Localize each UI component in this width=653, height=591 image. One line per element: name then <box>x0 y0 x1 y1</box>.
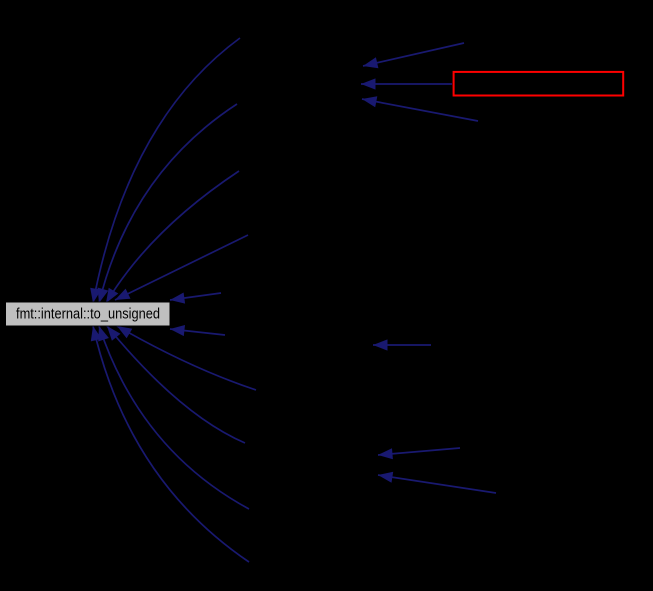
edge E3 caller3 -> to_unsigned <box>106 171 239 303</box>
node N-red (red outlined caller node, label dark) <box>454 72 624 96</box>
node to_unsigned (current function, grey box) <box>6 302 171 326</box>
edge E6 caller6 -> to_unsigned <box>170 325 225 336</box>
edge E5 caller5 -> to_unsigned <box>170 293 221 304</box>
edge E7 caller7 -> to_unsigned <box>117 326 256 390</box>
edge E4 caller4 -> to_unsigned <box>115 235 248 300</box>
edge E15 -> node N9 <box>378 448 460 459</box>
edge E8 caller8 -> to_unsigned <box>107 326 245 443</box>
edge E9 caller9 -> to_unsigned <box>98 326 249 509</box>
edge E14 -> node N6 <box>373 339 431 350</box>
edge E10 caller10 -> to_unsigned <box>91 326 249 562</box>
edge E11 -> node N2 <box>363 43 464 68</box>
edge E1 caller1 -> to_unsigned <box>90 38 240 303</box>
edge E13 -> node N2 <box>362 96 478 121</box>
edge E12 red node -> node N2 <box>361 78 452 89</box>
svg-text:fmt::internal::to_unsigned: fmt::internal::to_unsigned <box>16 306 160 322</box>
edge E16 -> node N9 <box>378 472 496 493</box>
edge E2 caller2 -> to_unsigned <box>98 104 238 303</box>
